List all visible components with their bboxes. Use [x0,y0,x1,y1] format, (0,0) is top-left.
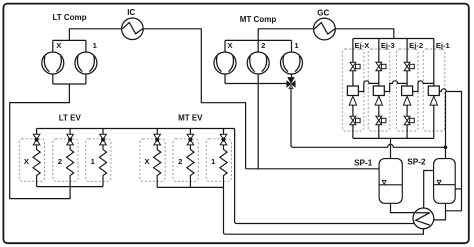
wire LT comp 1 top stub [85,40,87,52]
wire LT comp X bottom stub [52,74,54,84]
svg-text:Ej-2: Ej-2 [409,41,423,50]
gas cooler GC [314,18,336,40]
enclosure Ej-3 [368,49,390,131]
nozzle Ej-2 [403,96,410,105]
wire Ej-2 nozzle to valve [406,105,408,116]
wire LT comp bottom bus [53,83,86,85]
wire MT EV return bus [157,186,223,188]
valve Ej-2 top [404,62,414,70]
svg-text:X: X [227,41,232,50]
svg-text:Ej-1: Ej-1 [436,41,451,50]
svg-text:X: X [24,157,29,166]
ejector body Ej-X [347,86,358,96]
wire suction header to SP-1 gas port [246,168,380,170]
evaporator coil MT-1 [220,145,227,188]
compressor MT-X [214,52,236,74]
svg-text:X: X [144,157,149,166]
intercooler IC [122,18,144,40]
evaporator coil LT-2 [67,145,74,187]
svg-text:SP-1: SP-1 [354,159,373,168]
wire MT comp suction stub [257,84,259,169]
expansion valve LT-X [33,134,40,145]
wire MT EV return to HX [224,187,424,234]
wire MT comp bottom bus [225,83,287,85]
wire Ej-X motive stub [352,39,354,63]
ejector body Ej-2 [402,86,413,96]
svg-text:LT Comp: LT Comp [52,13,86,22]
wire Ej-3 motive stub [378,39,380,63]
enclosure LT-EV-2 [53,139,78,182]
expansion valve MT-X [154,134,161,145]
wire GC to ejector header [335,29,394,39]
svg-text:GC: GC [317,8,329,17]
wire Ej-1 motive line [433,39,435,87]
wire LT comp 1 bottom stub [85,74,87,84]
wire MT comp top bus [225,39,292,41]
wire Ej-3 valve to body [378,71,380,86]
compressor MT-1 [281,52,303,74]
wire MT comp 2 top stub [257,40,259,52]
evaporator coil LT-1 [99,145,106,187]
wire evaporator feed bus [37,128,235,130]
wire Ej-2 suction port [413,81,434,92]
wire LT discharge to IC [69,29,121,41]
valve Ej-3 top [376,62,386,70]
svg-text:Ej-3: Ej-3 [381,41,395,50]
separator SP-1 [379,159,402,204]
svg-text:2: 2 [261,41,265,50]
svg-text:1: 1 [294,41,299,50]
svg-text:1: 1 [93,41,98,50]
wire MT comp X bottom stub [224,74,226,84]
wire MT comp X top stub [224,40,226,52]
nozzle Ej-1 [430,96,437,105]
evaporator coil MT-X [154,145,161,188]
wire MT comp 1 top stub [291,40,293,52]
evaporator coil LT-X [33,145,40,187]
svg-text:1: 1 [91,157,96,166]
enclosure LT-EV-1 [86,139,111,182]
svg-text:1: 1 [211,157,216,166]
svg-text:MT Comp: MT Comp [240,15,277,24]
wire Ej-X suction port [358,81,378,92]
nozzle Ej-3 [375,96,382,105]
compressor MT-2 [247,52,269,74]
wire LT suction loop [10,84,70,199]
wire LT-X feed stub [36,129,38,135]
wire MT-X feed stub [156,129,158,135]
expansion valve LT-2 [67,134,74,145]
wire Ej-2 valve to body [406,71,408,86]
wire LT comp top bus [53,39,86,41]
wire Ej-3 suction port [384,81,407,92]
evaporator coil MT-2 [187,145,194,188]
wire ejector motive header [353,38,434,40]
wire SP-2 gas to HX [424,171,434,209]
valve Ej-X top [350,62,360,70]
wire Ej-3 nozzle to valve [378,105,380,116]
valve Ej-2 bottom [404,116,414,124]
svg-text:2: 2 [178,157,182,166]
wire SP-2 side stub [455,188,461,190]
wire Ej-2 motive stub [406,39,408,63]
enclosure MT-EV-2 [173,139,198,182]
svg-text:Ej-X: Ej-X [355,41,370,50]
compressor LT-1 [75,52,97,74]
valve Ej-3 bottom [376,116,386,124]
wire SP-1 liquid outlet [391,203,415,212]
enclosure MT-EV-X [140,139,165,182]
ejector body Ej-3 [373,86,384,96]
wire MT-2 feed stub [189,129,191,135]
wire Ej-X nozzle to valve [352,105,354,116]
wire ejector outlet bus [353,137,434,139]
svg-text:2: 2 [58,157,62,166]
enclosure MT-EV-1 [206,139,231,182]
expansion valve LT-1 [100,134,107,145]
enclosure Ej-X [342,49,364,131]
wire feed riser [235,129,415,224]
expansion valve MT-2 [187,134,194,145]
wire Ej-1 outlet line [433,105,435,138]
svg-text:X: X [56,41,61,50]
wire Ej-1 branch to SP-2 top [445,92,447,159]
wire LT comp X top stub [52,40,54,52]
compressor LT-X [42,52,64,74]
wire IC to MT suction drop [143,29,245,169]
wire MT comp 2 bottom stub [257,74,259,84]
wire MT comp 1 bottom stub [291,74,293,77]
wire outlet bus to SP-1 [390,138,392,158]
wire MT discharge to GC [258,29,313,41]
ejector body Ej-1 [428,86,439,96]
3-way bypass valve [287,77,296,88]
wire bypass valve to SP-2 line [291,88,446,148]
valve Ej-X bottom [350,116,360,124]
enclosure Ej-2 [397,49,419,131]
wire Ej-2 valve to outlet bus [406,125,408,139]
separator SP-2 [434,159,456,204]
svg-text:MT EV: MT EV [178,114,203,123]
junction node [444,146,448,150]
wire Ej-X valve to outlet bus [352,125,354,139]
expansion valve MT-1 [220,134,227,145]
wire Ej-1 suction port [439,89,461,211]
svg-text:IC: IC [127,8,135,17]
enclosure LT-EV-X [19,139,44,182]
wire MT-1 feed stub [223,129,225,135]
wire Ej-X valve to body [352,71,354,86]
wire LT-1 feed stub [102,129,104,135]
internal heat exchanger [413,208,434,229]
svg-text:SP-2: SP-2 [407,158,426,167]
wire SP-2 liquid outlet [434,203,446,220]
wire Ej-3 valve to outlet bus [378,125,380,139]
wire LT-2 feed stub [69,129,71,135]
wire LT EV return bus [37,186,103,188]
enclosure Ej-1 [423,49,445,131]
nozzle Ej-X [349,96,356,105]
svg-text:LT EV: LT EV [59,114,82,123]
